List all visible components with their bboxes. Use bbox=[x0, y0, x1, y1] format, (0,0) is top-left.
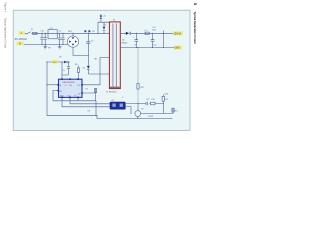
svg-text:GND: GND bbox=[175, 48, 180, 50]
wire opto cathode bbox=[126, 104, 138, 111]
wire TVS stub bbox=[100, 14, 102, 22]
resistor R12 bbox=[151, 102, 156, 105]
wire aux rectifier branch bbox=[88, 56, 109, 75]
node GND output highlight bbox=[174, 46, 182, 50]
optocoupler U2 bbox=[110, 102, 125, 109]
node L input highlight bbox=[19, 31, 25, 35]
svg-text:R10: R10 bbox=[165, 94, 168, 96]
TL431 U3 bbox=[135, 111, 141, 117]
wire bridge DC+ stub bbox=[72, 33, 74, 36]
svg-text:N: N bbox=[19, 43, 21, 46]
ground PE1 bbox=[43, 45, 47, 49]
wire IC left pin FB bbox=[47, 84, 58, 86]
svg-text:D5: D5 bbox=[83, 67, 85, 69]
svg-text:CT: CT bbox=[65, 85, 67, 87]
svg-text:R11: R11 bbox=[165, 99, 168, 101]
svg-text:D6: D6 bbox=[122, 40, 124, 42]
wire snubber clamp loop bbox=[98, 22, 109, 33]
fuse F1 bbox=[26, 32, 39, 35]
op-amp U1 controller IC bbox=[59, 79, 83, 97]
wire secondary top rail bbox=[121, 32, 173, 34]
wire VCC net bbox=[47, 62, 70, 79]
bridge diode bottom bbox=[72, 44, 74, 46]
svg-text:R12: R12 bbox=[151, 99, 154, 101]
transformer T1 bbox=[109, 22, 120, 89]
svg-text:R9: R9 bbox=[88, 111, 90, 113]
bridge diode left bbox=[69, 40, 71, 42]
svg-text:F1: F1 bbox=[31, 29, 33, 31]
page background bbox=[0, 0, 200, 136]
svg-text:Typical Application Circuit: Typical Application Circuit bbox=[4, 18, 8, 49]
capacitor CY1 bbox=[58, 33, 61, 44]
diode D6 output bbox=[126, 32, 131, 35]
label smudge C3b bbox=[88, 30, 90, 32]
resistor R6 bbox=[77, 66, 79, 80]
svg-text:CX1: CX1 bbox=[41, 30, 45, 32]
svg-text:C2: C2 bbox=[59, 30, 61, 32]
svg-text:L2: L2 bbox=[145, 30, 147, 32]
svg-text:U3: U3 bbox=[141, 108, 143, 110]
capacitor CX2 bbox=[44, 33, 47, 44]
wire opto emitter bbox=[126, 107, 131, 114]
diode D4 clamp bbox=[103, 27, 106, 31]
svg-text:C8: C8 bbox=[134, 45, 136, 47]
wire top rail primary bbox=[25, 32, 110, 34]
diode D5 aux bbox=[87, 66, 90, 70]
bridge diode top bbox=[72, 37, 74, 39]
svg-text:C3: C3 bbox=[91, 41, 93, 43]
wire TL431 ref row bbox=[138, 102, 163, 105]
capacitor CY2 bbox=[61, 33, 64, 44]
svg-text:TL431: TL431 bbox=[148, 116, 153, 118]
svg-text:R13: R13 bbox=[174, 111, 177, 113]
svg-text:C10: C10 bbox=[153, 45, 156, 47]
svg-text:R15: R15 bbox=[140, 87, 143, 89]
svg-text:D3: D3 bbox=[59, 56, 61, 58]
wire TL431 cathode row bbox=[141, 108, 173, 114]
wire secondary bottom rail bbox=[121, 47, 174, 49]
svg-text:5: 5 bbox=[193, 3, 197, 5]
resistor R15 divider upper bbox=[137, 48, 139, 104]
svg-text:Z1: Z1 bbox=[103, 15, 105, 17]
resistor R13 bbox=[172, 108, 174, 112]
resistor R10 bbox=[162, 96, 164, 101]
svg-text:Figure 4.: Figure 4. bbox=[4, 3, 8, 14]
svg-text:T1 ER1416: T1 ER1416 bbox=[106, 92, 117, 94]
svg-text:Typical Application Circuit: Typical Application Circuit bbox=[193, 12, 197, 44]
wire divider column bbox=[162, 95, 164, 114]
wire IC left pin CT bbox=[53, 91, 58, 101]
svg-text:C11: C11 bbox=[152, 27, 155, 29]
capacitor C8 output bbox=[135, 33, 139, 47]
wire IC source sense bbox=[82, 89, 96, 101]
wire sense ground bus bbox=[53, 97, 96, 115]
wire bridge DC- drop bbox=[73, 47, 88, 55]
wire VCC cap branch bbox=[67, 62, 70, 75]
bridge diode right bbox=[75, 40, 77, 42]
wire feedback left drop bbox=[46, 62, 48, 116]
node VCC highlight bbox=[52, 60, 58, 64]
svg-text:VCC: VCC bbox=[53, 62, 58, 64]
junction dots bbox=[42, 33, 164, 119]
svg-text:R8: R8 bbox=[94, 58, 96, 60]
wire bottom rail primary bbox=[24, 44, 69, 46]
capacitor C3 bulk bbox=[86, 33, 90, 55]
common-mode choke LF1 bbox=[48, 30, 57, 39]
svg-text:OB2535CPA: OB2535CPA bbox=[62, 81, 75, 84]
svg-text:R7: R7 bbox=[86, 89, 88, 91]
diode D3 vcc bbox=[64, 61, 67, 64]
capacitor C10 output bbox=[151, 33, 155, 47]
node VOUT+ highlight bbox=[173, 31, 183, 35]
component value labels bbox=[31, 15, 177, 118]
capacitor CX1 bbox=[40, 33, 43, 44]
svg-text:85~265VAC: 85~265VAC bbox=[15, 38, 28, 41]
svg-text:R2: R2 bbox=[92, 31, 94, 33]
svg-text:SR360: SR360 bbox=[122, 42, 128, 44]
inductor L2 bbox=[145, 32, 149, 34]
svg-text:D4: D4 bbox=[104, 25, 106, 27]
ground PE2 bbox=[58, 45, 62, 49]
wire IC drain to transformer bbox=[82, 58, 109, 85]
svg-text:R14: R14 bbox=[152, 30, 155, 32]
svg-text:C12: C12 bbox=[146, 99, 149, 101]
wire opto drive lower bbox=[62, 97, 110, 106]
svg-text:BD1: BD1 bbox=[68, 31, 72, 33]
label smudge C3a bbox=[84, 30, 86, 32]
svg-text:R6: R6 bbox=[75, 64, 77, 66]
node N input highlight bbox=[17, 42, 24, 46]
schematic frame bbox=[13, 10, 190, 130]
svg-text:12V/1A: 12V/1A bbox=[174, 32, 182, 35]
bridge rectifier BD1 bbox=[67, 36, 78, 47]
wire TL431 anode bbox=[137, 116, 139, 118]
TVS Z1 bbox=[100, 16, 102, 19]
wire opto drive upper bbox=[70, 97, 110, 103]
wire primary ground return bus bbox=[47, 116, 173, 119]
svg-text:LF1: LF1 bbox=[50, 28, 53, 30]
resistor R7 sense bbox=[94, 89, 96, 93]
svg-text:C5: C5 bbox=[62, 70, 64, 72]
wire sense tap bbox=[162, 31, 164, 48]
